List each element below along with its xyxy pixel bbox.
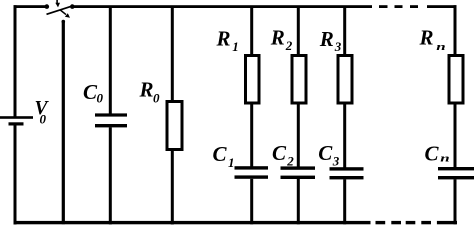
wire top-left (battery to switch) [14,5,46,8]
node: switch right terminal [70,4,75,9]
capacitor C1 [235,166,269,179]
wire R0 branch lower [171,151,174,225]
wire C0 branch lower [109,127,112,224]
wire C2 branch lower [297,179,300,224]
wire Cn branch lower [454,179,457,224]
switch blade [47,6,73,15]
battery V0 [0,116,33,125]
label R0 [139,78,161,106]
svg-text:R: R [419,26,434,50]
wire switch return vertical [62,20,66,225]
resistor R0 [167,102,182,150]
resistor R1 [246,56,260,104]
resistor R3 [338,56,352,104]
resistor R2 [292,56,306,104]
capacitor Cn [438,167,474,179]
svg-text:0: 0 [97,91,104,106]
label Rn [419,26,446,54]
switch S (open, with motion arrows) [45,0,75,18]
label R1 [216,26,239,54]
wire R2 branch upper [297,8,300,55]
wire top dashed continuation [379,5,457,8]
svg-text:R: R [270,26,285,50]
label C0 [83,80,104,106]
wire top main (switch to dashed section) [71,5,372,8]
capacitor C2 [281,166,316,179]
label C3 [318,141,340,168]
svg-text:C: C [425,141,440,165]
wire bottom dashed continuation [376,221,458,224]
wire R1-C1 middle [250,105,253,168]
label R2 [270,26,293,53]
svg-text:3: 3 [332,153,340,168]
label Cn [425,141,450,165]
svg-text:C: C [318,141,333,165]
resistor Rn [449,56,463,104]
svg-text:0: 0 [153,90,160,105]
capacitor C3 [330,167,364,179]
wire Rn-Cn middle [454,105,457,168]
svg-text:C: C [272,141,287,165]
label C2 [272,141,294,168]
wire R3 branch upper [343,8,346,55]
svg-text:R: R [139,78,154,102]
wire R1 branch upper [250,8,253,55]
label V0 [35,98,50,126]
svg-text:2: 2 [286,153,294,168]
wire C1 branch lower [250,179,253,225]
svg-text:n: n [440,153,450,165]
node: switch left terminal [45,4,50,9]
wire left vertical lower (battery to bottom wire) [14,126,17,225]
wire R2-C2 middle [297,105,300,168]
label C1 [213,142,235,170]
switch motion arrow (pointing down-right) [60,10,66,15]
wire C0 branch upper [109,8,112,114]
switch top arrow (pointing down) [56,0,58,3]
svg-text:0: 0 [40,112,47,127]
svg-text:R: R [216,26,231,50]
wire R0 branch upper [171,8,174,101]
wire R3-C3 middle [343,105,346,168]
svg-text:n: n [436,41,446,53]
capacitor C0 [95,113,127,127]
label R3 [319,27,342,54]
svg-text:2: 2 [285,38,293,53]
wire C3 branch lower [343,179,346,224]
wire left vertical upper (top wire to battery) [14,5,17,117]
svg-text:C: C [213,142,228,166]
svg-text:3: 3 [334,39,342,54]
svg-text:1: 1 [232,39,239,54]
wire Rn branch upper [454,5,457,55]
wire bottom main [14,221,371,224]
svg-text:R: R [319,27,334,51]
svg-text:1: 1 [228,155,235,170]
